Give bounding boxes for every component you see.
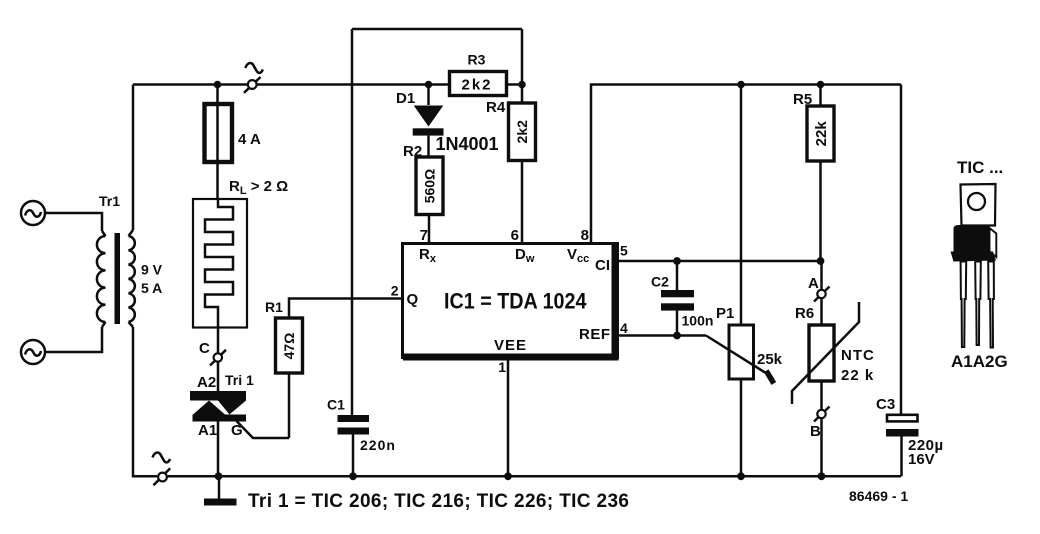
svg-text:Tri 1: Tri 1 <box>225 372 254 388</box>
diode D1 1N4001 <box>396 85 499 158</box>
wire AC bottom to primary <box>45 327 102 352</box>
node junction triac bottom <box>215 472 223 480</box>
capacitor C3 <box>876 85 944 477</box>
node C terminal <box>199 340 226 366</box>
AC source top <box>21 201 45 225</box>
svg-text:6: 6 <box>511 227 519 244</box>
svg-text:22 k: 22 k <box>841 367 874 384</box>
TIC package TO-220 <box>951 158 1008 371</box>
node junction VEE bottom <box>504 472 512 480</box>
svg-text:REF: REF <box>579 326 611 343</box>
resistor R3 <box>450 52 507 96</box>
node junction C2 top <box>673 257 681 265</box>
svg-text:C2: C2 <box>651 274 669 290</box>
svg-text:1: 1 <box>498 359 506 375</box>
svg-text:9 V: 9 V <box>141 262 163 278</box>
wire pin1 VEE riser <box>507 360 510 476</box>
node junction P1 bottom <box>737 472 745 480</box>
svg-text:2: 2 <box>391 283 399 299</box>
thermistor R6 NTC <box>792 302 875 404</box>
resistor R2 <box>403 143 443 243</box>
wire top loop left vertical down to C1 <box>351 29 354 415</box>
svg-text:A1: A1 <box>198 422 217 439</box>
AC source bottom <box>21 340 45 364</box>
svg-text:R2: R2 <box>403 143 422 160</box>
svg-text:220n: 220n <box>360 437 396 453</box>
node A terminal <box>808 261 830 325</box>
node junction D1 top <box>425 81 433 89</box>
node junction C1 bottom <box>349 472 357 480</box>
wire top loop right vertical <box>521 29 524 85</box>
mains terminal symbol top <box>244 63 263 93</box>
svg-text:R4: R4 <box>486 99 506 116</box>
wire gate to R1 <box>237 421 290 438</box>
svg-text:C: C <box>199 340 210 357</box>
svg-text:2k2: 2k2 <box>462 77 493 94</box>
node junction P1 top <box>737 81 745 89</box>
svg-text:RL > 2 Ω: RL > 2 Ω <box>229 178 288 197</box>
svg-text:5: 5 <box>620 243 628 259</box>
svg-text:560Ω: 560Ω <box>422 169 438 204</box>
svg-text:R3: R3 <box>468 52 486 68</box>
svg-text:4: 4 <box>620 320 628 336</box>
mains terminal symbol bottom left <box>153 453 171 486</box>
svg-text:R6: R6 <box>795 305 814 322</box>
svg-text:4 A: 4 A <box>238 131 261 148</box>
wire AC top to primary <box>45 213 102 231</box>
svg-text:C1: C1 <box>327 397 345 413</box>
svg-text:Q: Q <box>407 291 419 308</box>
svg-text:D1: D1 <box>396 90 415 107</box>
svg-text:86469 - 1: 86469 - 1 <box>849 488 908 504</box>
wire heater to C <box>217 328 220 392</box>
svg-text:8: 8 <box>581 227 589 244</box>
capacitor C2 <box>651 261 713 336</box>
svg-text:R1: R1 <box>265 299 283 315</box>
svg-text:5 A: 5 A <box>141 280 162 296</box>
wire pin8 Vcc riser and top rail right <box>591 85 901 244</box>
potentiometer P1 <box>706 85 783 477</box>
wire main AC line y=84.5 <box>133 83 247 86</box>
wire triac A1 down <box>217 422 220 477</box>
svg-text:47Ω: 47Ω <box>281 333 297 360</box>
svg-text:16V: 16V <box>908 451 935 468</box>
legs <box>961 262 967 348</box>
svg-text:IC1 = TDA 1024: IC1 = TDA 1024 <box>444 289 587 314</box>
svg-text:R5: R5 <box>793 91 812 108</box>
svg-text:7: 7 <box>420 227 428 244</box>
svg-text:B: B <box>810 423 821 440</box>
node junction R3/R4 <box>518 81 526 89</box>
wire <box>257 83 450 86</box>
node junction C2 bottom <box>673 332 681 340</box>
transformer Tr1 <box>97 193 163 327</box>
svg-text:A1A2G: A1A2G <box>951 352 1008 371</box>
wire secondary top riser <box>132 85 135 231</box>
resistor R5 <box>793 85 834 262</box>
node junction fuse top <box>214 81 222 89</box>
triac Tri1 <box>190 372 254 439</box>
node junction R5 top <box>817 81 825 89</box>
wire top loop horizontal <box>352 28 522 31</box>
resistor R1 <box>265 299 402 439</box>
svg-text:VEE: VEE <box>494 337 527 354</box>
op-amp/IC U1 TDA1024 box <box>391 227 628 375</box>
load RL heating element <box>193 178 288 328</box>
svg-text:P1: P1 <box>716 305 734 322</box>
node B terminal <box>810 381 830 476</box>
svg-text:100n: 100n <box>682 313 714 329</box>
wire pin5 CI line <box>617 260 821 263</box>
svg-text:C3: C3 <box>876 396 895 413</box>
svg-text:1N4001: 1N4001 <box>436 134 499 154</box>
svg-text:Tr1: Tr1 <box>99 193 120 209</box>
wire pin4 REF line <box>617 334 706 337</box>
svg-text:CI: CI <box>595 257 610 274</box>
svg-text:A: A <box>808 275 819 292</box>
fuse F1 4A <box>205 85 261 200</box>
capacitor C1 <box>327 397 396 477</box>
ground <box>204 476 237 505</box>
svg-text:22k: 22k <box>813 121 830 147</box>
wire R3 right to junction <box>507 83 523 86</box>
svg-text:25k: 25k <box>757 351 783 368</box>
svg-text:A2: A2 <box>197 374 216 391</box>
svg-text:2k2: 2k2 <box>514 120 530 144</box>
node junction R6 bottom <box>818 472 826 480</box>
node junction R5 bottom <box>817 257 825 265</box>
wire bottom rail <box>168 475 901 478</box>
resistor R4 <box>486 85 536 244</box>
wire secondary bottom riser <box>133 327 157 476</box>
svg-text:NTC: NTC <box>841 347 875 364</box>
svg-text:TIC ...: TIC ... <box>957 158 1003 177</box>
svg-text:Tri 1 = TIC 206; TIC 216; TIC: Tri 1 = TIC 206; TIC 216; TIC 226; TIC 2… <box>248 491 629 512</box>
